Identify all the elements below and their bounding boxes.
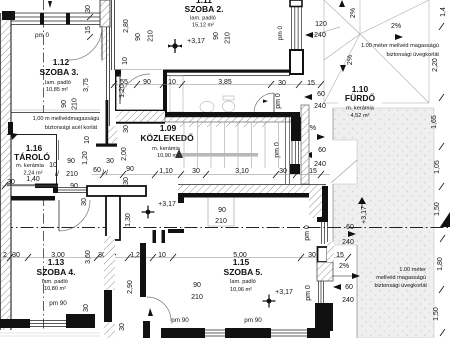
svg-text:3,85: 3,85 (218, 79, 232, 86)
svg-text:+3,17: +3,17 (361, 206, 368, 224)
window pillar bottom (290, 50, 303, 74)
svg-text:10,80 m²: 10,80 m² (44, 286, 66, 292)
svg-text:+3,17: +3,17 (275, 289, 293, 296)
FURDO labels (338, 84, 382, 105)
corridor top wall (116, 109, 165, 111)
svg-text:60: 60 (345, 284, 353, 291)
terrain lines bottom-left (0, 332, 100, 334)
svg-text:pm 0: pm 0 (274, 142, 281, 158)
svg-text:1,20: 1,20 (82, 151, 89, 165)
bottom walls (0, 319, 30, 328)
svg-text:1,40: 1,40 (26, 176, 40, 183)
svg-text:m. kerámia: m. kerámia (346, 106, 375, 112)
top window band SZOBA3 (11, 13, 100, 25)
SZOBA4 top wall (11, 196, 55, 201)
svg-text:1,20: 1,20 (119, 84, 126, 98)
window below bay (322, 222, 328, 244)
svg-text:2,20: 2,20 (432, 58, 439, 72)
svg-text:2: 2 (3, 252, 7, 259)
svg-text:210: 210 (215, 218, 227, 225)
horizontal center line (0, 227, 450, 229)
svg-text:30: 30 (123, 177, 130, 185)
svg-text:210: 210 (225, 32, 232, 44)
svg-text:10,06 m²: 10,06 m² (230, 287, 252, 293)
door arc SZOBA4 (59, 200, 90, 231)
TAROLO walls (8, 122, 13, 135)
svg-text:1.00 méter mellvéd magasságú: 1.00 méter mellvéd magasságú (361, 43, 439, 49)
stairs (184, 122, 279, 168)
svg-text:1,65: 1,65 (431, 115, 438, 129)
svg-text:30: 30 (7, 179, 15, 186)
svg-text:15: 15 (85, 26, 92, 34)
svg-text:SZOBA 3.: SZOBA 3. (40, 67, 79, 77)
door arc SZOBA3 (69, 27, 102, 60)
svg-text:lam. padló: lam. padló (230, 279, 256, 285)
svg-text:240: 240 (314, 161, 326, 168)
svg-text:210: 210 (66, 171, 78, 178)
roof outline top-right (324, 0, 429, 103)
svg-text:10: 10 (168, 79, 176, 86)
svg-text:2,80: 2,80 (123, 19, 130, 33)
bottom dim chain (0, 257, 345, 259)
svg-text:90: 90 (126, 166, 134, 173)
svg-text:10: 10 (122, 57, 129, 65)
benchmark cross SZOBA2 (168, 39, 182, 53)
svg-text:FÜRDŐ: FÜRDŐ (345, 92, 376, 103)
svg-text:210: 210 (148, 30, 155, 42)
vertical center line SZOBA3 (43, 0, 45, 113)
svg-text://: // (55, 171, 59, 178)
svg-text:/ /: / / (102, 170, 108, 177)
svg-text:SZOBA 5.: SZOBA 5. (224, 267, 263, 277)
top-right hatch wall of SZOBA3 (100, 0, 110, 27)
svg-text:15: 15 (307, 80, 315, 87)
svg-text:pm 0: pm 0 (304, 225, 311, 241)
svg-text:pm 0: pm 0 (305, 285, 312, 301)
SZOBA2 right window (292, 7, 302, 51)
svg-text:90: 90 (70, 183, 78, 190)
svg-text:2,00: 2,00 (121, 147, 128, 161)
svg-text:KÖZLEKEDŐ: KÖZLEKEDŐ (140, 132, 194, 143)
svg-text:+3,17: +3,17 (187, 38, 205, 45)
svg-text:60: 60 (318, 147, 326, 154)
svg-text:10,85 m²: 10,85 m² (46, 87, 68, 93)
svg-text:1,30: 1,30 (125, 213, 132, 227)
middle room benchmark (142, 206, 155, 219)
svg-text:pm 0: pm 0 (35, 32, 49, 39)
svg-text:240: 240 (314, 103, 326, 110)
terrace edge lines (332, 108, 334, 140)
window band TAROLO bottom (58, 188, 87, 193)
svg-text:biztonsági acél korlát: biztonsági acél korlát (45, 125, 98, 131)
left outer wall hatched (0, 13, 11, 330)
right wall hatch upper (291, 117, 301, 141)
svg-text:30: 30 (83, 304, 90, 312)
svg-text:pm 90: pm 90 (244, 317, 262, 324)
svg-text:90: 90 (218, 207, 226, 214)
svg-text:60: 60 (317, 91, 325, 98)
svg-text:1,80: 1,80 (437, 257, 444, 271)
svg-text:210: 210 (191, 294, 203, 301)
svg-text:3,00: 3,00 (51, 252, 65, 259)
svg-text:90: 90 (213, 32, 220, 40)
svg-text:30: 30 (279, 168, 287, 175)
svg-text:30: 30 (278, 80, 286, 87)
door arc SZOBA2 bottom (120, 74, 150, 104)
svg-text:90: 90 (135, 33, 142, 41)
svg-text:1,50: 1,50 (434, 202, 441, 216)
svg-text:2%: 2% (391, 23, 401, 30)
door gap to SZOBA5 (207, 198, 209, 227)
svg-text:+3,17: +3,17 (158, 201, 176, 208)
svg-text:pm 90: pm 90 (171, 317, 189, 324)
elevation flag right (358, 197, 366, 204)
svg-text:1,05: 1,05 (434, 160, 441, 174)
svg-text:10: 10 (158, 252, 166, 259)
svg-text:1.00 méter: 1.00 méter (399, 267, 426, 273)
svg-text:60: 60 (346, 224, 354, 231)
svg-text:biztonsági üvegkorlát: biztonsági üvegkorlát (374, 283, 427, 289)
svg-text:lam. padló: lam. padló (45, 80, 71, 86)
svg-text:3,60: 3,60 (85, 250, 92, 264)
SZOBA2 left thin wall (111, 0, 113, 70)
svg-text:90: 90 (67, 158, 75, 165)
door arc bottom middle (147, 297, 171, 321)
top-left wall corner (2, 11, 15, 20)
svg-text:10: 10 (49, 162, 57, 169)
svg-text:m. kerámia: m. kerámia (152, 146, 181, 152)
svg-text:pm 90: pm 90 (49, 300, 67, 307)
benchmark triangle right edge (440, 212, 450, 227)
svg-text:2%: 2% (350, 8, 357, 18)
svg-text:90: 90 (143, 79, 151, 86)
svg-text:1,4: 1,4 (440, 7, 447, 17)
door jambs middle (153, 230, 157, 243)
svg-text:SZOBA 4.: SZOBA 4. (37, 267, 76, 277)
bay wall right of corridor (309, 186, 322, 218)
stair handrail gray (180, 153, 258, 157)
corridor bottom wall (178, 184, 326, 186)
WC fixtures (170, 76, 183, 112)
SZOBA2 bottom wall (115, 70, 121, 77)
svg-text:3,75: 3,75 (83, 78, 90, 92)
svg-text:2%: 2% (339, 263, 349, 270)
corridor dim chain (92, 174, 330, 176)
svg-text:210: 210 (72, 98, 79, 110)
svg-text:1,50: 1,50 (433, 307, 440, 321)
terrace stipple area (333, 108, 434, 338)
svg-text:240: 240 (342, 239, 354, 246)
window mullions (40, 13, 44, 25)
svg-text:30: 30 (81, 198, 88, 206)
svg-text:90: 90 (193, 282, 201, 289)
stair tread ticks (180, 122, 267, 127)
svg-text:1.12: 1.12 (53, 57, 70, 67)
svg-text:2%: 2% (347, 55, 354, 65)
svg-text:30: 30 (192, 168, 200, 175)
svg-text:10: 10 (84, 136, 91, 144)
svg-text:1,00 m mellvédmagasságú: 1,00 m mellvédmagasságú (33, 116, 100, 122)
svg-text:TÁROLÓ: TÁROLÓ (14, 151, 50, 162)
right margin dims (431, 7, 447, 321)
svg-text:30: 30 (119, 323, 126, 331)
svg-text:3,10: 3,10 (235, 168, 249, 175)
svg-text:4,52 m²: 4,52 m² (351, 113, 370, 119)
SZOBA2 window pillar top (290, 0, 302, 7)
thin wall below passage (100, 27, 110, 62)
right wall lower windows (318, 247, 328, 262)
SZOBA3 bottom boundary (11, 112, 100, 114)
svg-text:240: 240 (342, 297, 354, 304)
svg-text:30: 30 (106, 158, 114, 165)
svg-text:1.09: 1.09 (160, 123, 177, 133)
svg-text:90: 90 (61, 100, 68, 108)
svg-text:30: 30 (85, 5, 92, 13)
svg-text:m. kerámia: m. kerámia (16, 163, 45, 169)
svg-text:30: 30 (12, 252, 20, 259)
SZOBA2 bottom dim chain (112, 84, 322, 86)
svg-text:lam. padló: lam. padló (42, 279, 68, 285)
svg-text:120: 120 (315, 21, 327, 28)
svg-text:60: 60 (93, 167, 101, 174)
svg-text:2,90: 2,90 (127, 280, 134, 294)
svg-text:pm 0: pm 0 (277, 26, 284, 40)
svg-text:1.15: 1.15 (233, 257, 250, 267)
svg-text:30: 30 (123, 125, 130, 133)
svg-text:biztonsági üvegkorlát: biztonsági üvegkorlát (386, 52, 439, 58)
svg-text:15,12 m²: 15,12 m² (192, 23, 214, 29)
svg-text:lam. padló: lam. padló (190, 16, 216, 22)
svg-text:15: 15 (336, 252, 344, 259)
roof hip lines (324, 0, 360, 34)
svg-text:10,90 m²: 10,90 m² (157, 153, 179, 159)
WC door arc (254, 93, 274, 113)
small wall corner above SZOBA5 (168, 229, 184, 233)
WC left wall (163, 70, 167, 117)
svg-text:15: 15 (309, 168, 317, 175)
middle lower walls (104, 236, 115, 290)
wall right of TAROLO (106, 100, 109, 146)
svg-text:30: 30 (308, 252, 316, 259)
svg-text:mellvéd magasságú: mellvéd magasságú (376, 275, 426, 281)
svg-text:1,10: 1,10 (159, 168, 173, 175)
svg-text:pm 0: pm 0 (275, 93, 282, 109)
svg-text:SZOBA 2.: SZOBA 2. (185, 4, 224, 14)
